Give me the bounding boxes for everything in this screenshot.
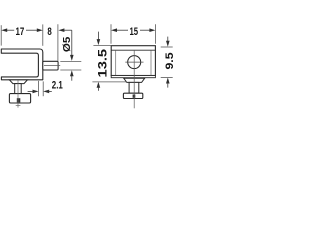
pin center line (44, 65, 60, 67)
svg-text:13.5: 13.5 (96, 49, 110, 78)
dim 9.5 bottom extension line (161, 77, 173, 79)
svg-text:15: 15 (130, 26, 139, 38)
svg-text:Ø5: Ø5 (62, 36, 73, 52)
dim Ø5 upper arrow line (71, 30, 73, 56)
side screw knurled head (9, 94, 30, 103)
front view body (111, 46, 155, 76)
dim 13.5 top arrow (97, 32, 99, 40)
front hole circle (128, 56, 141, 69)
side screw center line (17, 80, 19, 107)
svg-text:17: 17 (16, 26, 25, 38)
side screw flange (9, 80, 27, 84)
dim 9.5 top extension line (161, 46, 173, 48)
svg-text:2.1: 2.1 (52, 80, 63, 92)
front flange (124, 78, 145, 82)
side screw neck (15, 84, 22, 94)
dim 17/8 extension line shared (42, 24, 44, 45)
dim 17 line (6, 29, 14, 31)
dim 17 extension line left (0, 25, 2, 45)
dim 13.5 bottom arrow (97, 82, 101, 88)
dim Ø5 lower arrow (70, 70, 74, 76)
front center line (133, 51, 135, 109)
dim 13.5 top extension line (93, 44, 111, 46)
pin extension lines (60, 60, 81, 62)
front neck (129, 82, 139, 93)
front inner wall left (115, 50, 117, 75)
front head (123, 93, 142, 98)
svg-text:9.5: 9.5 (164, 53, 175, 70)
side view clamp body (C-shape) (1, 49, 43, 80)
dim 9.5 top arrow (167, 37, 169, 42)
front top band line (111, 49, 155, 51)
front bottom lip (111, 76, 155, 78)
dim 8 outside arrow (58, 28, 64, 32)
dim 2.1 extension lines (38, 81, 40, 96)
front inner wall right (150, 50, 152, 75)
side view pin (43, 61, 58, 70)
dim 8 extension line right (57, 24, 59, 61)
dim 15 line (116, 29, 129, 31)
dim 13.5 bottom extension line (92, 81, 126, 83)
front head center mark (133, 95, 136, 98)
dim 2.1 arrows (33, 90, 39, 94)
side head center mark (17, 98, 21, 102)
svg-text:8: 8 (47, 26, 51, 38)
circle crosshair horizontal (125, 61, 143, 63)
dim 9.5 bottom arrow (166, 78, 170, 84)
dim 15 extension lines (110, 24, 112, 43)
